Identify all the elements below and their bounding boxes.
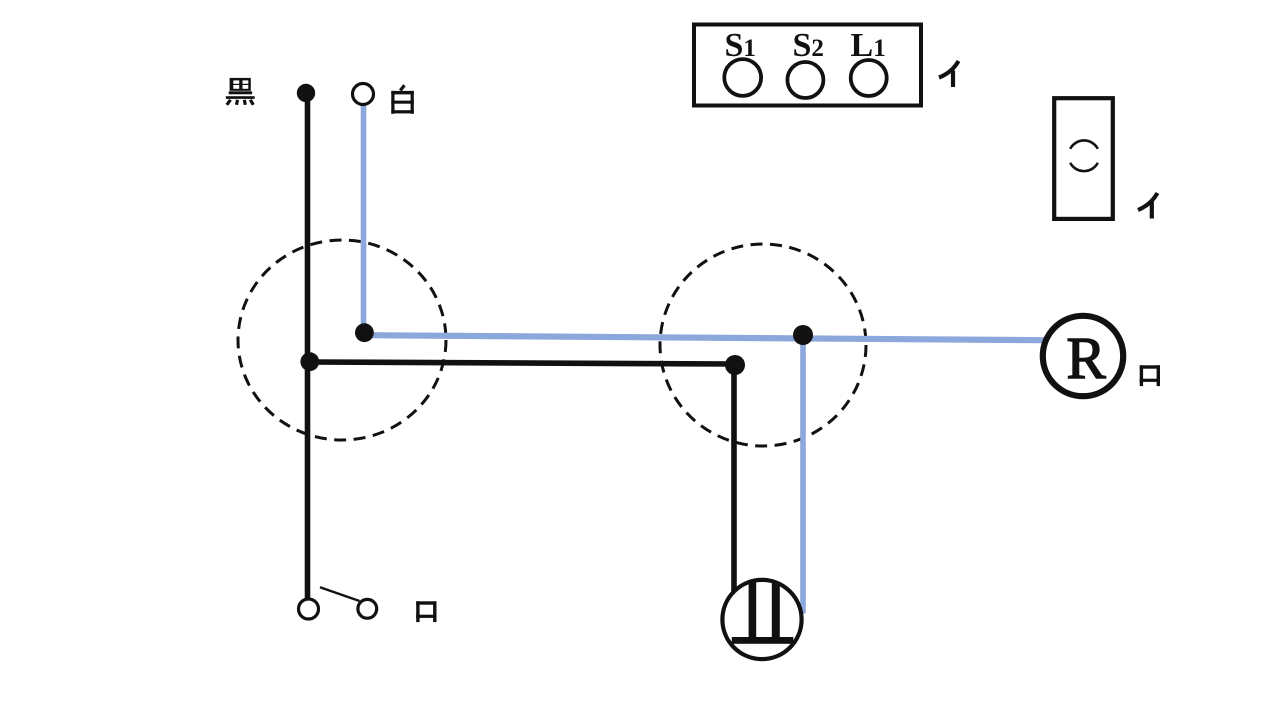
svg-text:R: R	[1066, 325, 1106, 391]
